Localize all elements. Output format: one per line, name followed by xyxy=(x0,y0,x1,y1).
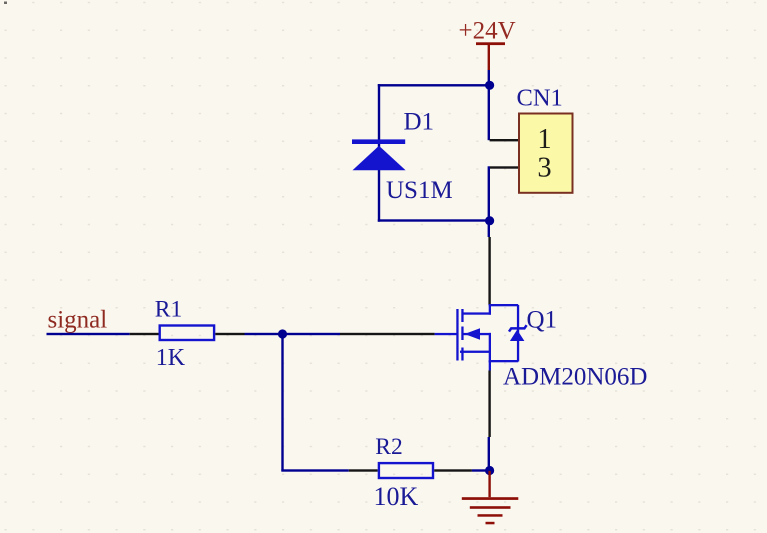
wire R1 to junction xyxy=(245,333,341,335)
wire drain vertical (black) xyxy=(488,237,490,305)
wire R2 left pin xyxy=(349,469,378,471)
junction gate node xyxy=(278,329,287,338)
svg-text:3: 3 xyxy=(537,153,551,184)
wire diode bottom xyxy=(378,219,490,221)
svg-text:ADM20N06D: ADM20N06D xyxy=(503,364,647,391)
junction drain node xyxy=(485,216,494,225)
connector CN1 xyxy=(519,114,573,193)
svg-text:10K: 10K xyxy=(374,482,419,511)
junction source node xyxy=(485,466,494,475)
power +24V xyxy=(459,17,516,70)
svg-text:1: 1 xyxy=(537,124,551,155)
wire R1 left pin xyxy=(130,333,159,335)
wire diode left vertical xyxy=(378,84,380,222)
svg-text:Q1: Q1 xyxy=(527,307,558,334)
wire CN1 pin 1 xyxy=(490,139,519,141)
wire R1 right pin xyxy=(215,333,244,335)
wire top junction to pin1 xyxy=(488,85,490,140)
svg-text:signal: signal xyxy=(48,306,108,333)
wire R2 right pin xyxy=(434,469,472,471)
junction top node xyxy=(485,81,494,90)
wire source to junction (navy) xyxy=(488,437,490,471)
svg-text:+24V: +24V xyxy=(459,17,516,44)
wire junction to drain (navy stub) xyxy=(488,221,490,237)
wire power to junction xyxy=(488,70,490,85)
wire pin3 to bottom junction xyxy=(488,166,490,220)
resistor R1 xyxy=(160,326,214,341)
wire CN1 pin 3 xyxy=(490,166,519,168)
svg-text:1K: 1K xyxy=(156,345,186,371)
wire source vertical (black) xyxy=(488,371,490,438)
ground xyxy=(462,471,519,524)
diode D1 xyxy=(352,139,406,170)
svg-text:R1: R1 xyxy=(155,297,182,323)
svg-text:CN1: CN1 xyxy=(517,84,563,111)
wire signal to R1 xyxy=(47,333,130,335)
wire R2 to ground junction xyxy=(472,469,490,471)
transistor Q1 xyxy=(435,304,527,371)
wire corner to R2 xyxy=(281,469,349,471)
svg-text:R2: R2 xyxy=(375,434,402,460)
resistor R2 xyxy=(379,463,433,478)
svg-text:D1: D1 xyxy=(404,108,435,135)
wire diode top xyxy=(378,84,490,86)
svg-text:US1M: US1M xyxy=(386,177,453,204)
wire junction down xyxy=(281,334,283,471)
wire junction to gate (black) xyxy=(340,333,435,335)
